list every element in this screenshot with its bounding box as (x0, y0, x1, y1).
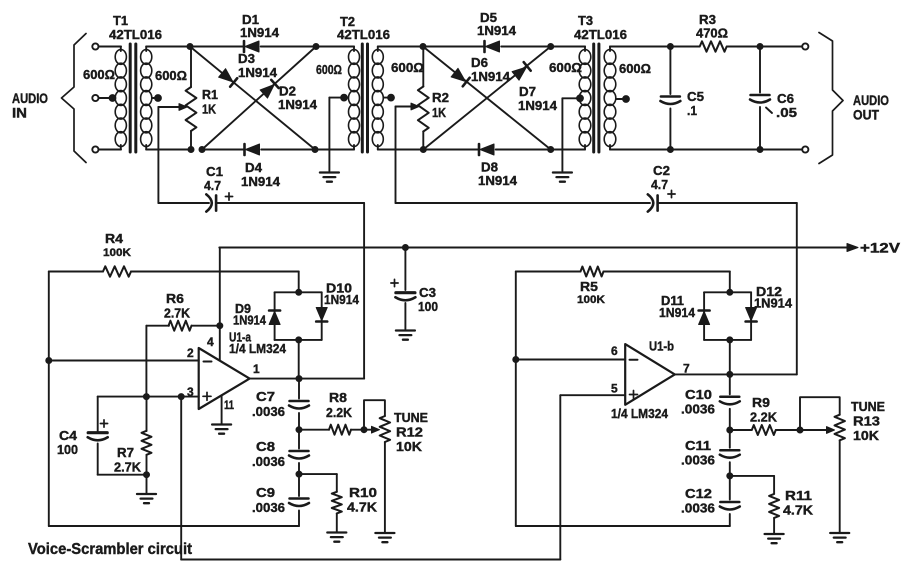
wire D4 to node (261, 149, 315, 151)
svg-text:1K: 1K (432, 105, 447, 120)
D8 label (478, 160, 518, 189)
svg-text:C10: C10 (685, 387, 712, 402)
R7 label (114, 445, 142, 475)
wire R2 wiper to C2 (396, 107, 651, 204)
node ring1 bottom-left (199, 147, 205, 153)
wire inverting input (49, 360, 199, 362)
ring2 diagonal wire TL-BR (423, 47, 551, 150)
R10 label (347, 485, 378, 515)
svg-text:1N914: 1N914 (477, 23, 517, 38)
R12 wiper arrow (364, 426, 380, 433)
wire to R3 (670, 46, 699, 48)
D3 label (238, 51, 278, 80)
diode pair left branch (274, 292, 276, 340)
R10 ground wire (336, 513, 338, 531)
D5 label (477, 10, 517, 38)
C8 label (252, 439, 285, 469)
C12 label (681, 486, 715, 516)
wire bottom link to stage 2 (181, 559, 560, 561)
capacitor C1 (206, 194, 216, 211)
R2 wiper arrow (396, 103, 420, 110)
svg-text:2.7K: 2.7K (164, 306, 191, 321)
svg-text:1N914: 1N914 (478, 173, 518, 188)
transformer T1 primary winding (115, 47, 126, 150)
wire T3 secondary bottom rail (610, 149, 802, 151)
node ring2 bottom-left (420, 147, 426, 153)
svg-text:Voice-Scrambler circuit: Voice-Scrambler circuit (28, 541, 192, 558)
pin 4 label (207, 335, 214, 349)
svg-text:R6: R6 (166, 291, 184, 306)
svg-text:7: 7 (683, 362, 690, 376)
wire bottom rail to D8 (423, 149, 479, 151)
svg-text:42TL016: 42TL016 (109, 27, 162, 42)
U1-b label (611, 339, 674, 422)
svg-text:.0036: .0036 (252, 404, 285, 419)
svg-text:.0036: .0036 (681, 402, 715, 417)
svg-text:C1: C1 (206, 164, 223, 179)
capacitor C11 (720, 430, 740, 476)
svg-text:.0036: .0036 (681, 501, 715, 516)
C9 label (252, 485, 285, 515)
svg-text:11: 11 (224, 398, 234, 412)
U1-a minus sign (204, 361, 212, 363)
wire input bottom (99, 149, 122, 151)
wire top rail to D5 (423, 46, 485, 48)
svg-text:R7: R7 (117, 445, 134, 460)
pin 11 ground stub (221, 395, 223, 423)
T3 secondary 600-ohm label (619, 61, 651, 76)
wire C2 to U1-b output (658, 203, 797, 374)
diode D6 (451, 68, 470, 86)
svg-text:C4: C4 (59, 428, 78, 443)
svg-text:C7: C7 (256, 389, 275, 404)
AUDIO OUT label (853, 93, 889, 123)
wire input mid to tap (99, 97, 110, 99)
wire D5 to node (501, 46, 551, 48)
svg-text:1N914: 1N914 (278, 97, 318, 112)
wire ring1 bottom-right to T2 (315, 149, 354, 151)
svg-text:100K: 100K (103, 247, 131, 259)
C11 label (681, 438, 715, 468)
R13 wiper arrow (800, 427, 835, 434)
svg-text:1N914: 1N914 (518, 98, 558, 113)
diode D2 (260, 80, 279, 98)
R6 label (164, 291, 191, 321)
svg-text:D4: D4 (245, 160, 263, 175)
diode pair 2 top edge (704, 291, 751, 293)
diode D1 (244, 41, 259, 52)
svg-text:1N914: 1N914 (659, 305, 696, 320)
svg-text:C11: C11 (685, 438, 711, 453)
potentiometer R2 top wire (422, 47, 424, 87)
R2 bottom wire (422, 132, 424, 150)
potentiometer R1 (186, 87, 197, 131)
capacitor C4 branch (98, 397, 147, 475)
op-amp U1-b (625, 344, 675, 405)
svg-text:C12: C12 (685, 486, 712, 501)
svg-text:2.2K: 2.2K (750, 410, 778, 425)
wire R3 to C6 node (727, 46, 760, 48)
D12 label (754, 284, 793, 311)
svg-text:R2: R2 (432, 90, 449, 105)
D9 label (233, 301, 267, 328)
diode pair 2 right branch (750, 292, 752, 340)
svg-text:42TL016: 42TL016 (337, 27, 390, 42)
potentiometer R12 (380, 416, 390, 442)
pin 3 label (187, 385, 194, 399)
wire non-inverting input 2 (560, 394, 625, 396)
T3 primary center tap wire (562, 95, 583, 171)
transformer T1 label (109, 13, 162, 42)
resistor R6 (169, 321, 192, 331)
svg-text:C9: C9 (256, 485, 275, 500)
resistor R10 (332, 492, 342, 514)
R1 bottom wire (190, 131, 192, 150)
node R6 to supply (217, 323, 223, 329)
svg-text:2.2K: 2.2K (326, 405, 353, 420)
svg-text:1/4 LM324: 1/4 LM324 (229, 341, 287, 356)
diode D10 (316, 308, 327, 322)
D10 label (324, 281, 360, 308)
potentiometer R13 (835, 415, 845, 441)
D4 label (241, 160, 281, 189)
svg-text:100: 100 (418, 299, 438, 314)
capacitor C12 (720, 476, 740, 526)
ground R12 (375, 533, 394, 542)
node feedback left (46, 358, 52, 364)
svg-text:10K: 10K (396, 439, 423, 454)
C3 label (418, 285, 438, 314)
T2 secondary 600-ohm label (391, 60, 424, 75)
node C3 on rail (402, 245, 408, 251)
node diode pair bottom (296, 337, 302, 343)
svg-text:600Ω: 600Ω (391, 60, 424, 75)
wire D1 to node (261, 46, 316, 48)
svg-text:.0036: .0036 (252, 454, 285, 469)
R9 label (750, 395, 778, 425)
diode pair right branch (321, 292, 323, 340)
svg-text:R11: R11 (785, 488, 812, 503)
D6 label (471, 55, 511, 84)
R13 ground wire (839, 440, 841, 532)
wire C11 node to R11 (730, 476, 774, 494)
svg-text:4.7K: 4.7K (783, 503, 814, 518)
R11 ground wire (773, 518, 775, 533)
svg-text:2.7K: 2.7K (114, 460, 142, 475)
node R13 wiper (797, 427, 803, 433)
T3 secondary center tap (616, 96, 629, 103)
svg-text:.05: .05 (776, 105, 797, 120)
R13 loop wire (800, 397, 840, 430)
T2 secondary center tap (384, 94, 394, 101)
T1 secondary 600-ohm label (155, 68, 187, 83)
svg-text:1N914: 1N914 (241, 174, 281, 189)
wire R4 left vertical (48, 272, 50, 527)
capacitor C10 (720, 374, 740, 430)
T2 primary center tap wire (329, 94, 348, 171)
svg-text:1/4 LM324: 1/4 LM324 (611, 406, 669, 421)
wire inverting input 2 (516, 359, 625, 361)
svg-text:D6: D6 (471, 55, 488, 70)
diode D5 (485, 41, 500, 52)
svg-text:600Ω: 600Ω (83, 67, 115, 82)
svg-text:4: 4 (207, 335, 214, 349)
wire T3 secondary top to C5 node (610, 46, 670, 48)
wire R4 row (49, 271, 299, 273)
U1-b plus sign (630, 391, 638, 399)
capacitor C5 (660, 47, 680, 150)
C6 label (776, 91, 797, 120)
node C11-C12 (727, 473, 733, 479)
node bias tap (178, 394, 184, 400)
R11 label (783, 488, 814, 518)
D1 label (240, 12, 280, 40)
svg-text:1N914: 1N914 (240, 25, 280, 40)
capacitor C7 (289, 379, 309, 430)
wire U1-a output (250, 378, 365, 380)
node C6 top (757, 44, 763, 50)
output terminal bottom (802, 146, 808, 152)
node R7 bottom (144, 472, 150, 478)
potentiometer R2 (418, 87, 429, 132)
svg-text:TUNE: TUNE (851, 399, 885, 414)
node ring1 bottom-right (312, 147, 318, 153)
svg-text:1K: 1K (202, 102, 217, 117)
R3 label (696, 12, 728, 41)
node C10-C11 (727, 427, 733, 433)
svg-text:R5: R5 (580, 279, 598, 294)
diode D7 (512, 62, 531, 80)
input terminal mid (92, 95, 98, 101)
svg-text:R12: R12 (396, 425, 423, 440)
node R1 bottom (188, 147, 194, 153)
node ring1 top-left (187, 44, 193, 50)
svg-text:1: 1 (253, 362, 260, 376)
capacitor C8 (289, 430, 309, 474)
resistor R3 (700, 41, 727, 51)
transformer T3 primary winding (579, 47, 591, 150)
svg-text:.0036: .0036 (252, 500, 285, 515)
svg-text:C2: C2 (653, 163, 670, 178)
wire R1 wiper to C1 (158, 107, 209, 203)
D7 label (518, 84, 558, 113)
wire R5 row (516, 271, 730, 273)
svg-text:D7: D7 (519, 84, 536, 99)
ground R13 (830, 533, 849, 542)
transformer T1 secondary winding (141, 47, 152, 150)
svg-text:C6: C6 (777, 91, 794, 106)
wire input top (99, 46, 122, 48)
svg-text:100: 100 (57, 442, 78, 457)
svg-text:C3: C3 (419, 285, 436, 300)
input brace (62, 34, 87, 163)
transformer T1 core (130, 44, 136, 152)
C4 label (57, 428, 78, 457)
wire T1 secondary top to node (146, 46, 190, 48)
wire T2 secondary bottom to node (378, 149, 424, 151)
U1-b minus sign (630, 359, 638, 361)
svg-text:IN: IN (12, 106, 27, 121)
svg-text:.1: .1 (687, 103, 697, 118)
svg-text:U1-b: U1-b (649, 339, 674, 354)
D2 label (278, 84, 318, 113)
node ring2 top-right (548, 44, 554, 50)
svg-text:R9: R9 (752, 395, 770, 410)
node C5 bottom (667, 147, 673, 153)
C5 label (687, 89, 704, 118)
T2 primary 600-ohm label (316, 62, 342, 77)
pin 5 label (611, 382, 618, 396)
svg-text:R13: R13 (853, 414, 880, 429)
C2 plus sign (668, 190, 675, 197)
R2 label (432, 90, 449, 120)
node output to filter 2 (727, 371, 733, 377)
node ring1 top-right (313, 44, 319, 50)
svg-text:C8: C8 (256, 439, 275, 454)
ground R7 (137, 475, 156, 504)
TUNE R12 label (394, 410, 428, 454)
wire +12V to pin 4 (219, 248, 221, 361)
svg-text:D3: D3 (238, 51, 255, 66)
wire diode pair 2 to output (729, 340, 731, 375)
C10 label (681, 387, 715, 417)
op-amp U1-a (199, 348, 250, 409)
T1 primary center tap (109, 95, 116, 102)
pin 2 label (187, 346, 194, 360)
ring2 diagonal wire BL-TR (423, 47, 550, 150)
node output to filter (296, 376, 302, 382)
C2 label (651, 163, 670, 192)
svg-text:5: 5 (611, 382, 618, 396)
wire R6 right (192, 325, 220, 327)
svg-text:R8: R8 (329, 390, 347, 405)
capacitor C4 (88, 433, 108, 441)
wire U1-b output (675, 373, 797, 375)
svg-text:T3: T3 (578, 13, 593, 28)
ring1 diagonal wire TL-BR (190, 47, 315, 150)
T3 primary 600-ohm label (549, 60, 582, 75)
wire to output terminal top (760, 46, 802, 48)
svg-text:AUDIO: AUDIO (853, 93, 889, 108)
svg-text:600Ω: 600Ω (619, 61, 651, 76)
svg-text:100K: 100K (577, 294, 605, 306)
svg-text:470Ω: 470Ω (696, 26, 728, 41)
wire bias tap down (180, 397, 182, 560)
svg-text:T1: T1 (113, 13, 128, 28)
wire R4 to diode pair (298, 272, 300, 293)
C7 label (252, 389, 285, 419)
transformer T2 core (362, 44, 367, 152)
svg-text:1N914: 1N914 (324, 292, 360, 307)
wire R6 left to plus node (146, 326, 169, 397)
diode pair bottom edge (275, 339, 322, 341)
T1 secondary center tap (152, 95, 161, 102)
svg-text:+12V: +12V (860, 241, 900, 256)
wire diode pair to output (298, 340, 300, 379)
C1 plus sign (225, 193, 232, 200)
node ring2 bottom-right (548, 147, 554, 153)
svg-text:C5: C5 (687, 89, 704, 104)
svg-text:.0036: .0036 (681, 453, 715, 468)
wire top rail to D1 (190, 46, 244, 48)
svg-text:R4: R4 (105, 231, 124, 246)
C4 plus sign (100, 420, 107, 427)
node ring2 top-left (420, 44, 426, 50)
capacitor C3 (395, 248, 415, 330)
svg-text:TUNE: TUNE (394, 410, 428, 425)
svg-text:1N914: 1N914 (238, 65, 278, 80)
pin 11 label (224, 398, 234, 412)
TUNE R13 label (851, 399, 885, 443)
diode pair top edge (275, 291, 322, 293)
ground R11 (765, 534, 784, 543)
node C6 bottom (757, 147, 763, 153)
diode D12 (746, 308, 757, 322)
T1 primary 600-ohm label (83, 67, 115, 82)
diode D8 (479, 144, 494, 155)
wire T2 secondary top to node (378, 46, 423, 48)
capacitor C2 (648, 194, 658, 211)
svg-text:OUT: OUT (853, 108, 880, 123)
wire bottom rail to D4 (202, 149, 244, 151)
U1-a plus sign (203, 392, 211, 400)
R8 label (326, 390, 353, 420)
C1 label (204, 164, 223, 193)
D11 label (659, 293, 696, 320)
wire C8 node to R10 (299, 474, 337, 492)
R12 ground wire (384, 442, 386, 532)
diode pair 2 left branch (703, 292, 705, 340)
node R6 plus input (143, 394, 149, 400)
svg-text:10K: 10K (853, 428, 880, 443)
resistor R11 (769, 494, 779, 518)
input terminal bottom (92, 146, 98, 152)
wire non-inverting input (98, 396, 199, 398)
wire R8 to R12 (351, 429, 364, 431)
diode D4 (245, 144, 260, 155)
+12V supply rail (219, 244, 858, 252)
ground C3 (396, 331, 415, 340)
capacitor C9 (289, 474, 309, 526)
resistor R4 (103, 266, 131, 276)
diode D9 (269, 311, 280, 325)
diode D3 (219, 69, 238, 87)
svg-text:42TL016: 42TL016 (574, 27, 627, 42)
output terminal top (802, 43, 808, 49)
input terminal top (92, 43, 98, 49)
R5 label (577, 279, 605, 306)
node feedback left 2 (513, 357, 519, 363)
pin 7 label (683, 362, 690, 376)
svg-text:R1: R1 (202, 87, 218, 102)
ground op-amp U1-a (212, 425, 231, 434)
svg-text:600Ω: 600Ω (316, 62, 342, 77)
wire T1 secondary bottom to node (146, 149, 191, 151)
transformer T3 label (574, 13, 627, 42)
svg-text:4.7: 4.7 (204, 178, 221, 193)
resistor R9 (730, 425, 776, 435)
R7 wire bottom (146, 455, 148, 475)
R4 label (103, 231, 131, 259)
ring1 diagonal wire BL-TR (202, 47, 316, 150)
node C8-C9 (296, 471, 302, 477)
wire ring2 top-right to T3 (551, 46, 585, 48)
R1 label (202, 87, 218, 117)
svg-text:6: 6 (611, 344, 618, 358)
node diode pair 2 bottom (727, 337, 733, 343)
+12V label (860, 241, 900, 256)
transformer T2 secondary winding (372, 47, 383, 150)
